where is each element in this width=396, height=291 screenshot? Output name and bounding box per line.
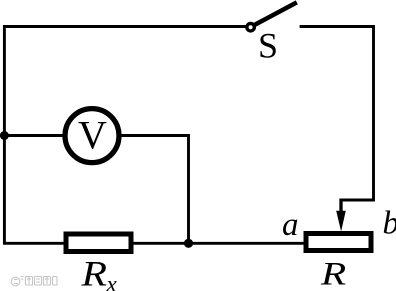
svg-text:b: b: [383, 206, 396, 242]
wire: wiper stem vertical: [339, 199, 342, 214]
wiper arrowhead onto rheostat R: [336, 211, 346, 232]
switch S blade (open): [253, 2, 297, 26]
wire: voltmeter branch right: [118, 134, 190, 137]
wire: left vertical rail: [3, 25, 6, 244]
switch S pivot (open circle): [247, 24, 254, 31]
voltmeter V: [65, 109, 119, 163]
wire: top rail right segment (switch to top-right corner): [300, 25, 375, 28]
watermark (faint site logo, bottom-left): [11, 277, 57, 286]
wire: voltmeter branch vertical down to bottom rail: [187, 134, 190, 244]
wire: right vertical rail: [372, 25, 375, 201]
svg-text:a: a: [282, 207, 299, 243]
wire: bottom rail from Rx to junction: [132, 242, 190, 245]
svg-text:R: R: [320, 257, 346, 291]
svg-text:S: S: [258, 26, 278, 66]
wire: bottom rail from junction to rheostat R: [187, 242, 304, 245]
wire: bottom rail left segment (corner to Rx): [3, 242, 66, 245]
rheostat R body (slide resistor box): [306, 234, 371, 251]
resistor Rx body: [66, 234, 131, 252]
svg-text:x: x: [106, 272, 118, 291]
wire: top rail left segment (from top-left corner to switch pivot): [3, 25, 246, 28]
node: junction on left rail: [0, 131, 9, 140]
svg-text:V: V: [78, 112, 107, 157]
node: junction on bottom rail: [184, 239, 193, 248]
wire: wiper jog horizontal segment: [340, 199, 375, 202]
wire: voltmeter branch left: [4, 134, 67, 137]
svg-text:R: R: [80, 254, 107, 291]
